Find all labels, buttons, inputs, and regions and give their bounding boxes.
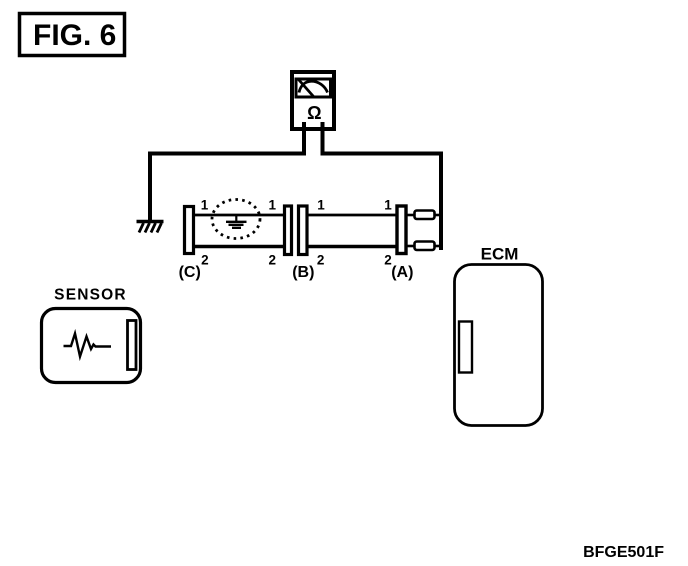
svg-text:Ω: Ω <box>307 103 321 123</box>
svg-text:1: 1 <box>384 198 392 213</box>
svg-text:1: 1 <box>269 198 277 213</box>
svg-text:1: 1 <box>201 198 209 213</box>
svg-text:ECM: ECM <box>481 245 519 264</box>
svg-text:2: 2 <box>317 253 325 268</box>
svg-text:1: 1 <box>317 198 325 213</box>
svg-text:FIG. 6: FIG. 6 <box>33 19 116 52</box>
svg-text:(A): (A) <box>391 264 413 281</box>
svg-text:(C): (C) <box>179 264 201 281</box>
svg-text:2: 2 <box>201 253 209 268</box>
svg-text:SENSOR: SENSOR <box>54 287 127 304</box>
svg-text:(B): (B) <box>292 264 314 281</box>
svg-text:2: 2 <box>269 253 277 268</box>
svg-text:BFGE501F: BFGE501F <box>583 544 664 561</box>
